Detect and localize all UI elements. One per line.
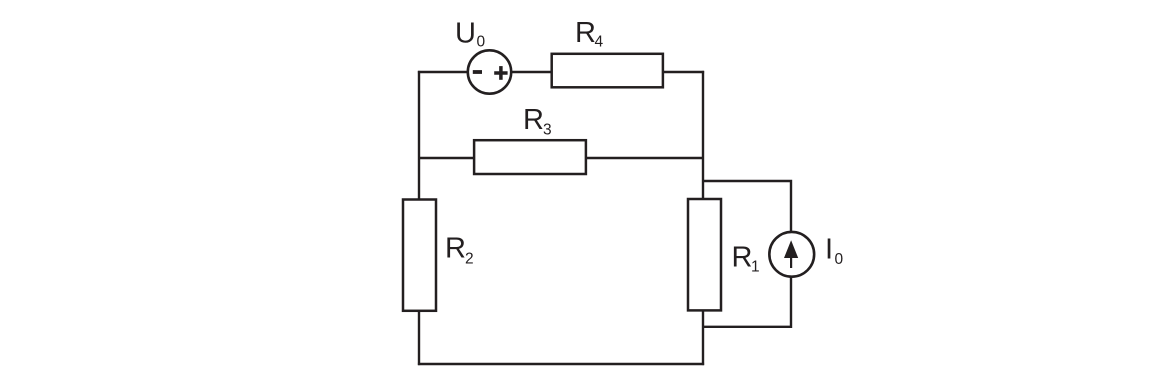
svg-text:R: R <box>732 242 753 274</box>
wire top row: left corner to U0 <box>418 71 467 73</box>
wire top row: U0 to R4 <box>512 71 552 73</box>
svg-text:1: 1 <box>751 259 760 276</box>
wire left vertical (top-left corner down to bottom-left corner, passes behind R2) <box>418 71 420 365</box>
svg-text:0: 0 <box>835 251 844 268</box>
current source I0 <box>769 232 843 277</box>
svg-text:R: R <box>523 104 544 136</box>
R4 body <box>552 54 663 88</box>
svg-text:4: 4 <box>595 34 604 51</box>
resistor R1 <box>688 199 760 310</box>
R3 body <box>474 140 586 174</box>
svg-text:2: 2 <box>465 251 474 268</box>
wire middle row: R3 to right vertical (junction at right wire) <box>586 157 703 159</box>
U0 minus polarity mark <box>473 70 482 74</box>
svg-text:3: 3 <box>543 122 552 139</box>
I0 circle <box>769 232 814 277</box>
wire I0 branch bottom: from I0 down and back to right vertical <box>703 275 791 327</box>
wire right vertical (top-right corner down to bottom-right corner, passes behind R1) <box>702 71 704 365</box>
resistor R4 <box>552 17 663 87</box>
wire middle row: left vertical to R3 <box>419 157 474 159</box>
wire top row: R4 to top-right corner <box>663 71 704 73</box>
R1 body <box>688 199 721 310</box>
I0 arrow (pointing up) <box>790 252 792 268</box>
R2 body <box>403 200 436 311</box>
resistor R2 <box>403 200 474 311</box>
resistor R3 <box>474 104 586 174</box>
U0 circle <box>468 50 511 93</box>
svg-text:U: U <box>455 18 476 50</box>
svg-text:R: R <box>445 233 466 265</box>
svg-text:R: R <box>575 17 596 49</box>
wire I0 branch top: from right vertical over and down to I0 <box>703 181 791 232</box>
svg-text:0: 0 <box>477 34 486 51</box>
wire bottom horizontal <box>418 363 704 365</box>
svg-text:I: I <box>825 234 833 266</box>
voltage source U0 <box>455 18 511 94</box>
U0 plus polarity mark <box>494 71 507 75</box>
